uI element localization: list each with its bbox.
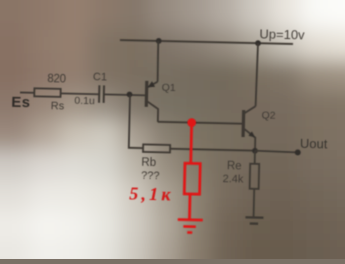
svg-text:2.4k: 2.4k — [222, 173, 244, 185]
svg-text:5,1к: 5,1к — [129, 183, 174, 204]
wire Re to ground — [253, 189, 256, 218]
ground (black, under Re) — [245, 217, 263, 224]
red wire resistor to ground — [188, 194, 191, 220]
wire Rs to C1 — [61, 92, 100, 95]
wire Rb to output node — [170, 149, 255, 151]
junction dot rail to Q1 collector — [156, 38, 162, 44]
wire node A down and right to Rb — [129, 95, 144, 148]
junction dot rail to Q2 collector — [255, 40, 261, 46]
ground (red) — [177, 219, 202, 232]
node A junction dot (Q1 base node) — [127, 92, 133, 98]
red added resistor 5,1k — [184, 163, 200, 194]
transistor Q1 — [146, 41, 160, 122]
transistor Q2 — [243, 43, 258, 151]
svg-text:???: ??? — [141, 170, 160, 182]
resistor Rs — [34, 88, 60, 97]
svg-text:0.1u: 0.1u — [74, 95, 95, 107]
capacitor C1 — [98, 85, 100, 102]
resistor Re — [250, 164, 260, 189]
output node junction dot — [252, 148, 258, 154]
wire output node to Uout terminal — [255, 151, 298, 153]
wire Q1 lower lead to Q2 base — [158, 122, 244, 124]
wire Es to Rs — [20, 91, 34, 93]
Uout terminal dot — [295, 149, 301, 155]
svg-text:820: 820 — [47, 73, 66, 85]
svg-text:C1: C1 — [93, 71, 107, 83]
svg-text:Uout: Uout — [300, 136, 328, 152]
svg-text:Up=10v: Up=10v — [259, 26, 305, 42]
svg-text:Es: Es — [11, 94, 31, 111]
wire output node down to Re — [254, 151, 256, 164]
svg-text:Re: Re — [227, 160, 242, 172]
wire C1 to Q1 base — [104, 93, 147, 96]
power rail Up wire — [120, 40, 293, 44]
red junction dot on Q2 base wire — [187, 118, 196, 127]
red wire node to added resistor — [189, 123, 193, 164]
svg-text:Q2: Q2 — [261, 110, 275, 122]
svg-text:Rb: Rb — [141, 157, 156, 169]
black schematic layer — [9, 21, 331, 225]
svg-text:Q1: Q1 — [162, 82, 176, 94]
red annotation layer — [128, 117, 205, 233]
resistor Rb — [143, 144, 170, 152]
svg-text:Rs: Rs — [51, 100, 65, 112]
